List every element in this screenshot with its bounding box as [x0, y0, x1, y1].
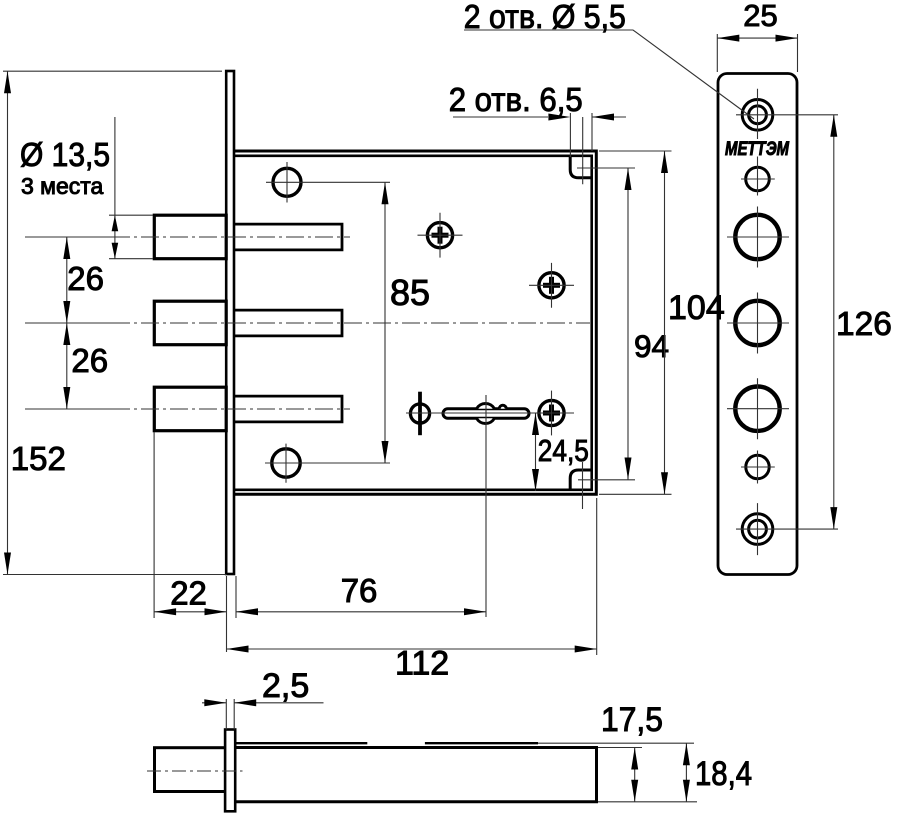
- dimension 104: [599, 151, 725, 494]
- centerline bolt row 3: [25, 408, 112, 410]
- dimension 112: [227, 498, 597, 683]
- dimension 22: [154, 432, 226, 652]
- svg-text:26: 26: [71, 342, 108, 379]
- bottom view bolt centerline: [147, 770, 243, 772]
- plate small hole upper: [741, 157, 775, 196]
- plate bolt hole 1: [727, 207, 789, 268]
- plate small hole lower: [741, 451, 775, 484]
- svg-text:Ø 13,5: Ø 13,5: [20, 137, 110, 174]
- plate screw hole top (5.5): [736, 89, 838, 139]
- bottom view faceplate: [225, 730, 235, 812]
- centerline bolt row 1: [25, 236, 112, 238]
- pivot pin: [410, 392, 429, 436]
- bolt tail 3 inside case: [234, 396, 342, 422]
- svg-text:152: 152: [11, 440, 66, 477]
- dimension 26 upper: [63, 237, 104, 323]
- phillips screw right upper: [529, 263, 574, 308]
- svg-text:85: 85: [390, 272, 430, 313]
- svg-text:3 места: 3 места: [21, 173, 104, 199]
- dimension 25: [717, 0, 797, 72]
- deadbolt 1: [154, 215, 226, 259]
- keyhole slot: [406, 395, 574, 617]
- dimension 2.5: [202, 667, 324, 730]
- deadbolt 3: [154, 387, 226, 431]
- svg-text:104: 104: [668, 289, 725, 327]
- faceplate edge-on (main view): [226, 71, 234, 574]
- bottom view lock case: [235, 743, 697, 803]
- dimension 18.4: [683, 743, 752, 802]
- svg-text:25: 25: [743, 0, 777, 33]
- svg-text:22: 22: [170, 575, 207, 612]
- leader 2 holes Ø5.5: [464, 0, 754, 119]
- bolt tail 1 inside case: [234, 224, 342, 250]
- svg-text:76: 76: [341, 572, 378, 609]
- svg-text:94: 94: [634, 328, 669, 364]
- dimension 126: [830, 115, 892, 529]
- plate screw hole bottom (5.5): [736, 503, 838, 555]
- svg-text:17,5: 17,5: [601, 701, 663, 739]
- phillips screw top middle: [418, 213, 463, 258]
- screw hole 6.5 bottom-right corner: [570, 462, 635, 509]
- plate bolt hole 2: [727, 293, 789, 354]
- svg-text:24,5: 24,5: [538, 433, 589, 468]
- dimension 26 lower: [63, 323, 108, 409]
- deadbolt 2: [154, 301, 226, 345]
- svg-text:126: 126: [836, 306, 892, 343]
- centerline bolt row 2 (lock axis): [25, 322, 112, 324]
- bottom view deadbolt: [155, 748, 227, 792]
- faceplate front view (right): [718, 74, 797, 575]
- dimension 2 holes 6.5: [449, 81, 626, 157]
- svg-text:26: 26: [67, 260, 104, 297]
- svg-text:112: 112: [395, 645, 449, 683]
- plate bolt hole 3: [727, 378, 789, 439]
- bolt tail 2 inside case: [234, 310, 342, 336]
- phillips screw right lower: [539, 391, 564, 436]
- lock case outline (main view): [234, 151, 596, 494]
- svg-text:2,5: 2,5: [262, 667, 309, 705]
- dimension 94: [625, 168, 670, 480]
- dimension 24.5: [532, 413, 589, 491]
- dimension 85: [382, 182, 431, 463]
- screw hole 6.5 top-right corner: [570, 117, 635, 184]
- svg-text:2 отв. 6,5: 2 отв. 6,5: [449, 81, 583, 118]
- dimension 17.5: [601, 701, 663, 802]
- hole bottom-left in case: [265, 444, 390, 483]
- svg-text:2 отв. Ø 5,5: 2 отв. Ø 5,5: [464, 0, 626, 35]
- svg-text:18,4: 18,4: [695, 755, 752, 793]
- dimension 152: [3, 71, 227, 574]
- dimension Ø13.5 3 places: [20, 117, 153, 259]
- dimension 76: [236, 572, 486, 618]
- hole top-left in case: [266, 162, 390, 203]
